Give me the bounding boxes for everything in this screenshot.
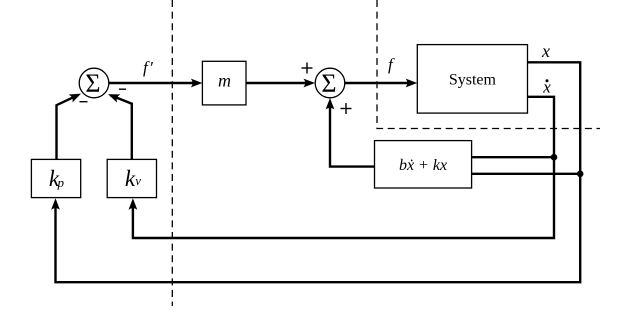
svg-text:bẋ + kx: bẋ + kx [399,157,447,174]
summing junction S1 [79,68,109,98]
block kp [31,159,80,197]
svg-text:x: x [541,41,550,61]
wire: m to summing junction S2 [246,79,315,88]
wire: x output feedback to kp [51,62,580,282]
junction dot (x tap) [577,171,584,178]
summing junction S2 [315,68,345,98]
wire: kv to summing junction S1 [108,94,132,160]
wire: bẋ+kx to S2 [326,98,375,167]
svg-text:v: v [135,174,141,188]
svg-text:f ′: f ′ [143,58,153,77]
sign label − (kv input) [119,88,126,90]
dashed boundary (right partition) [377,0,600,129]
sign label − (kp input) [80,101,88,103]
block kv [107,159,156,197]
svg-text:System: System [449,72,497,89]
block bẋ+kx [375,141,472,188]
wire: x tap into bẋ+kx block [472,173,581,175]
block m [202,61,246,105]
svg-text:Σ: Σ [85,69,100,98]
svg-text:m: m [218,71,231,91]
svg-text:k: k [125,166,136,191]
wire: S1 to block m [109,79,202,88]
dashed boundary (left partition) [171,0,173,306]
svg-text:Σ: Σ [321,69,336,98]
wire: S2 to System [345,79,417,88]
wire: ẋ output feedback to kv [129,97,555,238]
block System [417,45,527,114]
label ẋ (x dot) [542,78,551,97]
sign label + (feedback input) [341,103,352,114]
sign label + (input from m) [302,63,313,74]
wire: kp to summing junction S1 [57,94,82,160]
junction dot (ẋ tap) [551,154,558,161]
wire: ẋ tap into bẋ+kx block [472,156,554,158]
svg-text:p: p [56,175,64,190]
